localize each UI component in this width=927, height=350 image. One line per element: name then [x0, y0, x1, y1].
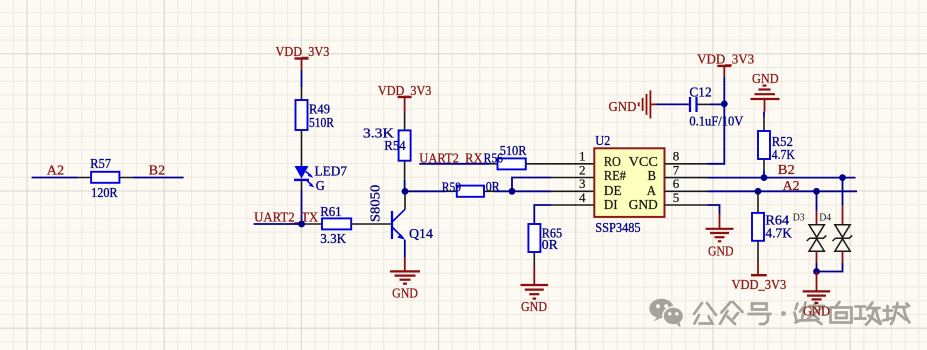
wire R59 to RE#/DE node	[484, 190, 512, 192]
svg-text:GND: GND	[392, 286, 418, 301]
resistor R59	[457, 186, 484, 197]
wire A2 to R64	[757, 191, 759, 213]
svg-text:4: 4	[579, 190, 586, 205]
svg-text:RE#: RE#	[604, 169, 626, 184]
svg-text:U2: U2	[595, 134, 610, 149]
svg-text:4.7K: 4.7K	[765, 226, 792, 241]
svg-text:G: G	[316, 179, 325, 194]
svg-text:B2: B2	[778, 163, 795, 178]
wire emitter to GND	[404, 240, 406, 270]
svg-text:510R: 510R	[500, 144, 527, 159]
wire node to pin3 DE	[512, 190, 594, 192]
junction R52/B2	[761, 174, 768, 181]
wire VDD to R49	[301, 70, 303, 100]
svg-text:GND: GND	[609, 100, 637, 115]
wire UART2_TX	[254, 223, 322, 225]
svg-text:3.3K: 3.3K	[320, 232, 346, 247]
wire C12 to VCC rail	[698, 103, 725, 105]
svg-text:A: A	[647, 184, 657, 199]
svg-text:VDD_3V3: VDD_3V3	[378, 84, 432, 99]
wire A2 to D3	[816, 191, 818, 224]
wire pin5 GND	[665, 205, 720, 229]
power VDD_3V3 (bottom, inverted)	[751, 274, 767, 276]
wire D3 bottom to GND node	[816, 251, 818, 271]
svg-text:GND: GND	[708, 245, 734, 260]
wire R65 to GND	[533, 252, 535, 285]
junction A2/D3	[813, 188, 820, 195]
wire B2 to D4	[842, 178, 844, 225]
LED LED7	[294, 166, 314, 188]
wire VDD to R54	[404, 113, 406, 131]
junction collector node	[402, 188, 409, 195]
watermark wechat logo	[649, 299, 683, 328]
wire GND to C12	[657, 103, 689, 105]
resistor R56	[498, 158, 526, 169]
TVS diode D3	[807, 225, 827, 252]
wire pin8 VCC	[665, 104, 725, 164]
wire R52 to B2	[763, 159, 765, 178]
resistor R52	[758, 131, 770, 159]
op-amp U2 body	[594, 148, 664, 217]
resistor R61	[322, 218, 351, 229]
wire pin6 A to A2	[665, 190, 858, 192]
resistor R64	[752, 213, 764, 241]
junction TX/LED	[298, 221, 305, 228]
svg-text:SSP3485: SSP3485	[595, 221, 640, 236]
svg-text:UART2_TX: UART2_TX	[254, 210, 318, 225]
svg-text:510R: 510R	[309, 116, 335, 131]
svg-text:B2: B2	[149, 164, 166, 179]
svg-text:120R: 120R	[91, 186, 118, 201]
svg-text:GND: GND	[803, 305, 830, 320]
svg-text:Q14: Q14	[409, 227, 433, 242]
wire UART2_RX to R56	[419, 163, 497, 165]
transistor Q14 S8050	[392, 209, 405, 240]
svg-text:0R: 0R	[542, 238, 559, 253]
wire LED to TX net	[301, 181, 303, 224]
junction RE#/DE node	[509, 188, 516, 195]
svg-text:GND: GND	[629, 198, 658, 213]
svg-text:A2: A2	[783, 179, 800, 194]
svg-text:R61: R61	[320, 205, 341, 220]
wire net A2-B2 left	[32, 177, 184, 179]
wire R64 to VDD	[757, 241, 759, 275]
wire R54 to collector node	[404, 161, 406, 192]
wire R49 to LED	[301, 130, 303, 166]
svg-text:VDD_3V3: VDD_3V3	[697, 52, 754, 67]
capacitor C12	[690, 97, 697, 112]
ground (Q14 emitter)	[390, 271, 420, 283]
svg-text:D4: D4	[819, 212, 832, 223]
svg-text:VDD_3V3: VDD_3V3	[276, 45, 330, 60]
resistor R49	[296, 100, 308, 130]
svg-text:S8050: S8050	[368, 184, 383, 222]
wire pin4 DI to R65	[534, 205, 594, 224]
svg-text:VCC: VCC	[629, 155, 658, 170]
junction D3/D4 GND node	[813, 268, 820, 275]
svg-text:A2: A2	[47, 164, 64, 179]
TVS diode D4	[833, 225, 853, 252]
svg-text:0R: 0R	[486, 180, 501, 195]
svg-text:DI: DI	[604, 198, 618, 213]
wire node to GND	[816, 272, 818, 292]
resistor R65	[528, 224, 540, 252]
svg-text:GND: GND	[521, 300, 547, 315]
junction VCC rail	[721, 101, 728, 108]
svg-text:4.7K: 4.7K	[772, 148, 795, 163]
svg-text:R54: R54	[384, 139, 405, 154]
svg-text:B: B	[648, 169, 657, 184]
resistor R57	[91, 172, 119, 183]
svg-text:RO: RO	[604, 155, 621, 170]
ground (D3 D4)	[803, 291, 831, 303]
wire node to pin2 RE#	[512, 178, 594, 193]
svg-text:DE: DE	[604, 184, 622, 199]
ground (R65)	[521, 285, 549, 299]
power VDD_3V3 (R54 branch)	[398, 97, 412, 113]
wire R61 to Q14 base	[351, 223, 391, 225]
svg-text:D3: D3	[793, 212, 805, 223]
power VDD_3V3 (top)	[717, 66, 731, 104]
wire pin7 B to B2	[665, 177, 856, 179]
ground sideways (C12)	[639, 90, 657, 118]
svg-text:LED7: LED7	[315, 165, 348, 180]
junction B2/D4	[839, 174, 846, 181]
resistor R54	[399, 130, 411, 160]
svg-text:VDD_3V3: VDD_3V3	[732, 278, 787, 293]
svg-text:2: 2	[579, 162, 586, 177]
wire GND to R52	[763, 112, 765, 131]
watermark text 公众号·逆向攻城	[694, 302, 910, 325]
ground inverted (R52)	[751, 86, 780, 112]
wire collector node to R59	[405, 190, 457, 192]
wire collector to node	[404, 192, 406, 210]
svg-text:0.1uF/10V: 0.1uF/10V	[689, 114, 743, 129]
ground (pin5)	[706, 229, 734, 242]
svg-text:R59: R59	[442, 181, 461, 196]
svg-text:R57: R57	[90, 157, 111, 172]
svg-text:C12: C12	[689, 86, 711, 101]
junction R64/A2	[755, 188, 762, 195]
power VDD_3V3 (LED branch)	[295, 59, 309, 71]
wire D4 bottom to GND node	[817, 251, 843, 271]
wire R56 to pin1	[526, 163, 595, 165]
